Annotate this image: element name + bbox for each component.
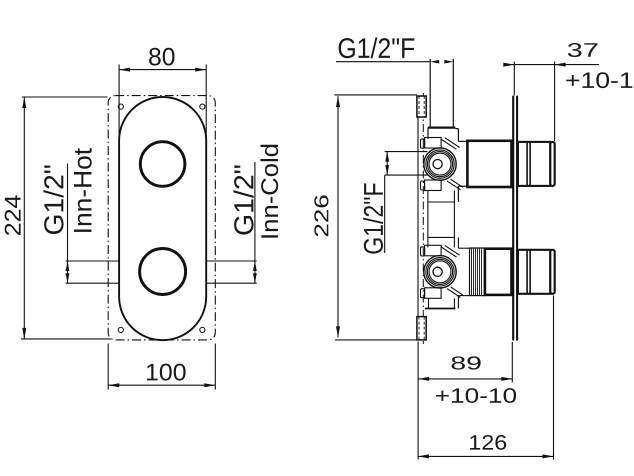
cold inlet diameter arrows [254, 261, 256, 283]
dimension 100 (bottom width) [108, 344, 215, 390]
label G1/2"F side (rotated) [363, 183, 383, 253]
leader line G1/2 cold [254, 162, 256, 261]
dimension 89 (body to wall) [418, 342, 512, 460]
cold inlet pipe lines (right of plate) [206, 261, 257, 283]
upper cartridge cone lines [441, 139, 456, 149]
middle column [428, 191, 455, 248]
leader line G1/2F side [384, 175, 386, 253]
label Inn-Hot (rotated) [74, 148, 92, 232]
dimension top outlet thread [336, 61, 430, 63]
body back edge [417, 117, 419, 317]
lower cartridge cone lines [441, 247, 456, 257]
dimension 80 (top width) [119, 65, 206, 141]
lower cartridge top lug [425, 245, 442, 256]
top outlet pipe [428, 59, 468, 202]
screw hole bottom-left [118, 327, 123, 332]
wall reference dash-dot axis [422, 93, 424, 344]
escutcheon obround (stadium outline) [119, 97, 206, 340]
handle knob top circle [140, 142, 185, 187]
lower knurled ring [470, 248, 485, 296]
trim plate phantom outline (dash-dot rounded rect) [108, 96, 215, 340]
leader line G1/2 hot [67, 164, 69, 262]
lower escutcheon sleeve [485, 249, 512, 295]
thermostat inlet pipe lines (hidden) [385, 152, 428, 176]
upper handle [518, 142, 550, 186]
top mounting boss [417, 96, 426, 117]
screw hole top-left [118, 104, 123, 109]
handle knob bottom circle [140, 249, 186, 295]
dimension 37 (handle projection) [504, 62, 600, 141]
upper cartridge top lug [425, 138, 442, 149]
label Inn-Cold (rotated) [260, 145, 278, 238]
tolerance +10-1 [566, 72, 632, 88]
dimension 226 (left height of valve) [334, 95, 427, 340]
label G1/2" cold (rotated) [233, 165, 253, 234]
lower cartridge retaining nut circles [424, 256, 456, 288]
label G1/2" hot (rotated) [43, 165, 63, 234]
wall trim plate (edge-on) [512, 97, 514, 340]
tolerance +10-10 [436, 388, 516, 403]
upper cartridge retaining nut circles [424, 148, 456, 180]
lower cartridge cluster [421, 245, 463, 298]
lower cartridge bottom lug [425, 288, 442, 299]
lower handle [518, 250, 550, 294]
upper escutcheon sleeve [467, 141, 511, 187]
upper cartridge cluster [421, 138, 463, 191]
screw hole top-right [200, 104, 205, 109]
bottom mounting boss [417, 317, 426, 340]
dimension 224 (left height) [21, 97, 111, 339]
dimension 126 (overall depth) [418, 296, 554, 460]
hot inlet diameter arrows [67, 261, 69, 283]
screw hole bottom-right [200, 327, 205, 332]
hot inlet pipe lines (left of plate) [66, 261, 120, 283]
thermostat inlet diameter arrows [386, 152, 388, 176]
bottom column [425, 237, 470, 308]
label G1/2"F top [339, 37, 415, 58]
upper cartridge bottom lug [425, 180, 442, 191]
